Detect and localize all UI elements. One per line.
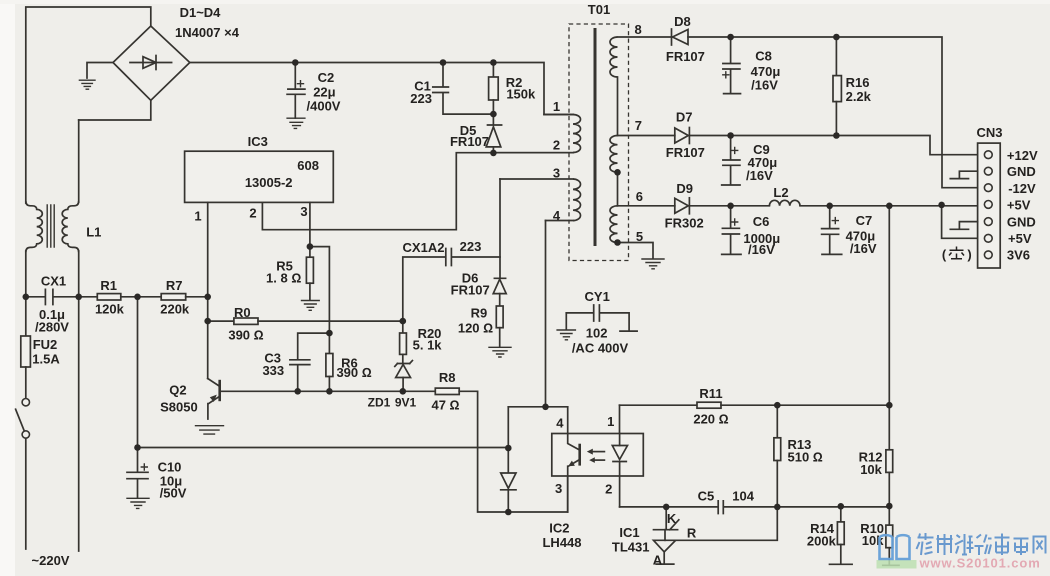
svg-text:+5V: +5V bbox=[1008, 231, 1032, 246]
svg-text:6: 6 bbox=[636, 189, 643, 204]
svg-text:1N4007 ×4: 1N4007 ×4 bbox=[175, 25, 240, 40]
svg-text:390 Ω: 390 Ω bbox=[336, 365, 371, 380]
svg-text:5: 5 bbox=[636, 229, 643, 244]
svg-text:/16V: /16V bbox=[850, 241, 877, 256]
svg-text:/16V: /16V bbox=[748, 242, 775, 257]
svg-text:C2: C2 bbox=[318, 70, 335, 85]
svg-text:223: 223 bbox=[410, 91, 432, 106]
svg-text:IC2: IC2 bbox=[549, 521, 569, 536]
svg-text:(: ( bbox=[942, 247, 947, 262]
svg-text:200k: 200k bbox=[807, 533, 837, 548]
svg-text:GND: GND bbox=[1007, 215, 1036, 230]
svg-text:8: 8 bbox=[634, 22, 641, 37]
svg-text:FR107: FR107 bbox=[666, 49, 705, 64]
svg-text:/400V: /400V bbox=[307, 99, 341, 114]
svg-text:D9: D9 bbox=[676, 181, 693, 196]
svg-text:1.5A: 1.5A bbox=[32, 352, 60, 367]
svg-text:C8: C8 bbox=[755, 49, 772, 64]
svg-text:FR107: FR107 bbox=[450, 134, 489, 149]
svg-text:L2: L2 bbox=[773, 185, 788, 200]
svg-text:D7: D7 bbox=[676, 110, 693, 125]
svg-text:CX1A2: CX1A2 bbox=[403, 240, 445, 255]
svg-text:C5: C5 bbox=[698, 489, 715, 504]
svg-text:/16V: /16V bbox=[751, 77, 778, 92]
svg-text:120k: 120k bbox=[95, 302, 125, 317]
svg-text:CX1: CX1 bbox=[41, 274, 66, 289]
svg-text:13005-2: 13005-2 bbox=[245, 175, 293, 190]
svg-text:C10: C10 bbox=[158, 460, 182, 475]
svg-text:220k: 220k bbox=[160, 302, 190, 317]
svg-text:10k: 10k bbox=[860, 462, 882, 477]
svg-text:FR107: FR107 bbox=[451, 283, 490, 298]
svg-text:1: 1 bbox=[553, 99, 560, 114]
svg-text:9V1: 9V1 bbox=[395, 396, 417, 410]
svg-text:4: 4 bbox=[553, 208, 561, 223]
svg-text:R7: R7 bbox=[166, 278, 183, 293]
svg-text:FR302: FR302 bbox=[665, 216, 704, 231]
svg-text:333: 333 bbox=[262, 363, 284, 378]
svg-text:2: 2 bbox=[605, 481, 612, 496]
svg-text:47 Ω: 47 Ω bbox=[431, 397, 459, 412]
svg-text:LH448: LH448 bbox=[542, 535, 581, 550]
svg-text:R8: R8 bbox=[439, 370, 456, 385]
svg-text:R: R bbox=[687, 525, 697, 540]
svg-text:510 Ω: 510 Ω bbox=[788, 450, 823, 465]
svg-text:-12V: -12V bbox=[1008, 181, 1036, 196]
svg-text:R1: R1 bbox=[100, 278, 117, 293]
svg-text:1. 8 Ω: 1. 8 Ω bbox=[266, 271, 301, 286]
svg-text:2: 2 bbox=[553, 138, 560, 153]
svg-text:S8050: S8050 bbox=[160, 399, 198, 414]
svg-text:5. 1k: 5. 1k bbox=[413, 337, 443, 352]
svg-text:2: 2 bbox=[249, 206, 256, 221]
svg-text:L1: L1 bbox=[86, 224, 101, 239]
svg-text:A: A bbox=[653, 553, 663, 568]
svg-text:3: 3 bbox=[300, 204, 307, 219]
svg-text:1: 1 bbox=[194, 209, 201, 224]
svg-text:104: 104 bbox=[732, 489, 754, 504]
svg-text:CY1: CY1 bbox=[585, 289, 610, 304]
svg-text:3V6: 3V6 bbox=[1007, 248, 1030, 263]
svg-text:/50V: /50V bbox=[160, 486, 187, 501]
svg-text:): ) bbox=[967, 247, 971, 262]
svg-text:+12V: +12V bbox=[1007, 148, 1038, 163]
svg-text:FU2: FU2 bbox=[33, 337, 58, 352]
svg-text:K: K bbox=[667, 511, 677, 526]
svg-text:IC1: IC1 bbox=[619, 525, 639, 540]
svg-text:GND: GND bbox=[1007, 164, 1036, 179]
svg-text:R9: R9 bbox=[471, 305, 488, 320]
svg-text:R16: R16 bbox=[846, 75, 870, 90]
svg-text:CN3: CN3 bbox=[976, 125, 1002, 140]
svg-text:C7: C7 bbox=[856, 213, 873, 228]
svg-text:R11: R11 bbox=[699, 386, 722, 401]
svg-text:D8: D8 bbox=[674, 14, 691, 29]
svg-text:www.S20101.com: www.S20101.com bbox=[919, 556, 1041, 571]
svg-text:IC3: IC3 bbox=[248, 134, 268, 149]
svg-text:ZD1: ZD1 bbox=[368, 396, 391, 410]
svg-text:22μ: 22μ bbox=[313, 85, 335, 100]
svg-text:Q2: Q2 bbox=[169, 382, 186, 397]
svg-text:220 Ω: 220 Ω bbox=[693, 412, 728, 427]
svg-text:/AC 400V: /AC 400V bbox=[572, 340, 629, 355]
svg-text:~220V: ~220V bbox=[32, 553, 70, 568]
svg-text:7: 7 bbox=[635, 118, 642, 133]
svg-text:/16V: /16V bbox=[746, 168, 773, 183]
svg-text:1: 1 bbox=[607, 414, 614, 429]
svg-text:2.2k: 2.2k bbox=[846, 89, 872, 104]
svg-text:390 Ω: 390 Ω bbox=[228, 327, 263, 342]
svg-text:+5V: +5V bbox=[1007, 197, 1031, 212]
svg-text:120 Ω: 120 Ω bbox=[458, 320, 493, 335]
svg-text:102: 102 bbox=[586, 326, 608, 341]
svg-text:C6: C6 bbox=[753, 214, 770, 229]
svg-text:/280V: /280V bbox=[35, 320, 69, 335]
svg-text:150k: 150k bbox=[506, 86, 536, 101]
svg-text:223: 223 bbox=[460, 239, 482, 254]
svg-text:FR107: FR107 bbox=[666, 145, 705, 160]
svg-text:3: 3 bbox=[553, 165, 560, 180]
svg-text:D1~D4: D1~D4 bbox=[180, 5, 222, 20]
svg-text:4: 4 bbox=[556, 416, 564, 431]
svg-text:608: 608 bbox=[297, 158, 319, 173]
svg-text:R0: R0 bbox=[234, 305, 251, 320]
svg-text:3: 3 bbox=[555, 481, 562, 496]
svg-text:TL431: TL431 bbox=[612, 539, 650, 554]
svg-text:T01: T01 bbox=[588, 2, 610, 17]
